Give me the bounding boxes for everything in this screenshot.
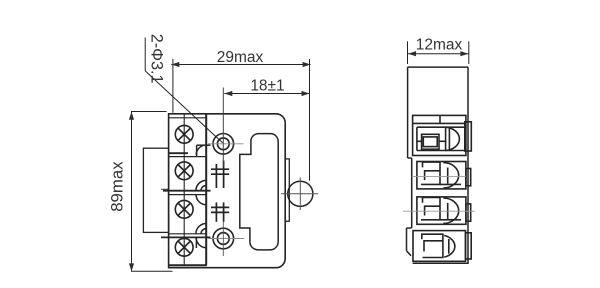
mounting hole H1 <box>213 134 234 155</box>
cover cutout <box>240 134 278 250</box>
plunger <box>285 159 289 221</box>
quick connect marks lower <box>211 202 229 221</box>
cell 4 clamp detail <box>196 237 206 248</box>
roller <box>288 181 313 206</box>
side cell 3 <box>417 197 471 224</box>
svg-text:29max: 29max <box>217 49 264 66</box>
cell 3 clamp detail <box>196 195 206 234</box>
cell boundary 3 <box>169 233 207 235</box>
terminal column bottom <box>169 264 207 266</box>
svg-text:89max: 89max <box>108 161 127 212</box>
side cell 2 <box>417 162 471 189</box>
cell 1 clamp detail <box>196 145 210 157</box>
front view body outline <box>169 114 286 268</box>
cell boundary 1 <box>169 152 188 154</box>
side cell 4 <box>413 231 471 262</box>
bracket tick <box>161 188 169 190</box>
column centerline <box>183 114 185 265</box>
dimension 29max <box>171 59 310 181</box>
screw terminal S2 <box>175 162 193 180</box>
svg-text:18±1: 18±1 <box>250 78 284 95</box>
hole H2 crosshair <box>208 238 244 240</box>
left mounting bracket <box>143 148 168 232</box>
dimension 18±1 <box>223 88 309 167</box>
leader 2-phi3.1 <box>145 38 222 143</box>
cell 2 clamp detail <box>196 180 206 190</box>
screw terminal S3 <box>175 200 193 218</box>
svg-text:12max: 12max <box>416 36 463 53</box>
dimension 89max <box>131 112 173 272</box>
mounting hole H2 <box>213 228 234 249</box>
roller crosshair <box>281 193 318 195</box>
terminal column right edge <box>205 114 207 265</box>
side cell 1 <box>413 115 472 155</box>
side view body <box>407 67 469 264</box>
svg-text:2-Φ3.1: 2-Φ3.1 <box>148 34 166 84</box>
dimension 12max <box>408 41 469 64</box>
side centerline a <box>412 175 466 177</box>
cell boundary 2 <box>163 190 211 192</box>
hole H1 crosshair <box>208 143 244 145</box>
terminal column top inner line <box>169 117 207 119</box>
screw terminal S1 <box>175 125 193 143</box>
quick connect marks upper <box>211 161 229 189</box>
side centerline b <box>403 210 475 212</box>
screw terminal S4 <box>175 238 193 256</box>
